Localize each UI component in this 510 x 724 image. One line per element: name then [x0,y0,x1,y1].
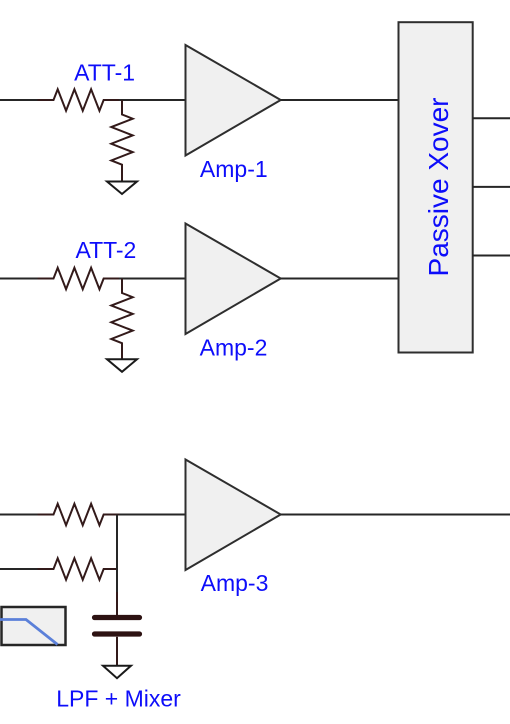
svg-text:Passive Xover: Passive Xover [423,98,454,277]
resistor ATT-1 shunt [111,100,132,181]
op-amp Amp-3 [186,460,281,571]
wire Amp-2 to Xover [281,278,399,280]
wire input 3b [0,568,40,570]
resistor R3b [38,558,118,579]
svg-text:ATT-2: ATT-2 [75,237,136,263]
wire summing node down [116,515,118,593]
LPF response curve [0,620,58,645]
wire Amp-3 output [281,514,510,516]
wire Xover output 1 [473,117,510,119]
wire input channel 2 [0,278,40,280]
wire Xover output 2 [473,186,510,188]
wire Xover output 3 [473,255,510,257]
svg-text:Amp-3: Amp-3 [201,570,269,596]
resistor ATT-1 series [38,89,120,110]
wire input 3a [0,514,40,516]
wire R3a to Amp-3 [116,514,186,516]
op-amp Amp-2 [186,224,281,335]
op-amp Amp-1 [186,45,281,156]
svg-text:LPF + Mixer: LPF + Mixer [56,685,181,711]
block Passive Xover [399,22,473,352]
resistor ATT-2 shunt [111,279,132,360]
svg-text:ATT-1: ATT-1 [74,59,135,85]
ground channel 2 [107,359,137,372]
resistor ATT-2 series [38,268,120,289]
resistor R3a [38,504,120,525]
wire input channel 1 [0,99,40,101]
svg-text:Amp-2: Amp-2 [200,335,268,361]
wire ATT-2 to Amp-2 [117,278,186,280]
wire cap bottom lead [116,637,118,666]
wire cap top lead [116,592,118,615]
svg-text:Amp-1: Amp-1 [200,156,268,182]
ground capacitor [103,666,131,679]
wire Amp-1 to Xover [281,99,399,101]
ground channel 1 [107,182,137,195]
capacitor C1 [95,615,140,620]
wire ATT-1 to Amp-1 [117,99,186,101]
block LPF [2,607,66,645]
